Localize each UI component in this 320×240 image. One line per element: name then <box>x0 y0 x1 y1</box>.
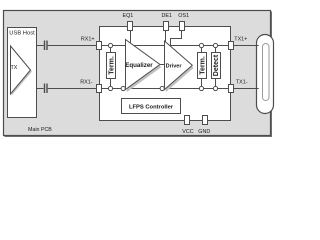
svg-text:Term.: Term. <box>108 56 115 75</box>
svg-text:OS1: OS1 <box>178 13 189 19</box>
svg-text:EQ1: EQ1 <box>123 13 134 19</box>
svg-text:TX1+: TX1+ <box>234 36 247 42</box>
svg-text:DE1: DE1 <box>161 13 172 19</box>
svg-text:Equalizer: Equalizer <box>125 62 153 69</box>
svg-text:Detect: Detect <box>213 54 220 76</box>
svg-text:RX1+: RX1+ <box>81 37 95 43</box>
svg-text:Term.: Term. <box>199 56 206 75</box>
svg-text:Main PCB: Main PCB <box>28 127 52 133</box>
svg-text:TX1-: TX1- <box>236 80 248 86</box>
svg-text:USB Host: USB Host <box>9 30 35 36</box>
svg-text:LFPS Controller: LFPS Controller <box>129 104 174 110</box>
svg-text:Driver: Driver <box>166 63 183 69</box>
svg-text:RX1-: RX1- <box>80 80 92 86</box>
svg-text:TX: TX <box>11 65 18 71</box>
svg-text:VCC: VCC <box>182 129 193 135</box>
svg-text:GND: GND <box>198 129 210 135</box>
